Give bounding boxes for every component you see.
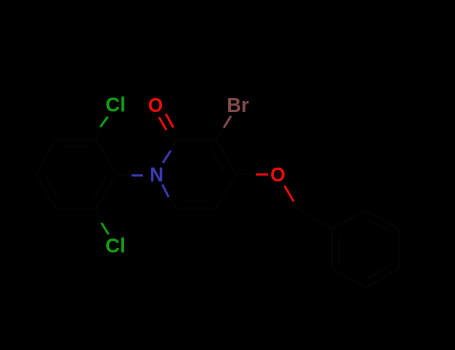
- bond O-CH2 carbon half: [294, 202, 299, 210]
- wire ring edge V5-V6: [332, 268, 366, 287]
- svg-text:O: O: [270, 164, 285, 186]
- wire aromatic inner V6-V1: [338, 235, 340, 262]
- bond C4-O ether O half: [256, 173, 268, 175]
- svg-text:Cl: Cl: [106, 95, 126, 117]
- wire ring edge V1-V2: [332, 210, 366, 229]
- pyridinone ring: [169, 139, 236, 208]
- bond ipso-N, N half: [132, 174, 144, 176]
- wire ring edge para-meta2: [36, 174, 56, 209]
- bond C3-Br Br half: [224, 116, 231, 128]
- wire ring edge orthoBottom-ipso: [96, 174, 116, 209]
- wire double bond inner C3=C4: [210, 147, 224, 171]
- wire ring edge meta2-orthoBottom: [56, 208, 96, 210]
- carbonyl C2=O line2 carbon half: [173, 128, 178, 137]
- svg-text:Br: Br: [227, 95, 249, 117]
- wire ring edge V4-V5: [366, 268, 400, 287]
- carbonyl C2=O line1 O half: [159, 117, 167, 130]
- bond C3-Br carbon half: [216, 128, 224, 140]
- bond C(aryl)-Cl top, carbon half: [96, 127, 100, 139]
- wire aromatic inner V2-V3: [367, 219, 391, 233]
- bond O-CH2 O half: [285, 186, 294, 202]
- wire N-C6 carbon half: [169, 197, 176, 209]
- bond C(aryl)-Cl bottom, carbon half: [96, 209, 101, 223]
- wire ring edge V2-V3: [366, 210, 400, 229]
- wire aromatic inner V4-V5: [367, 265, 391, 279]
- svg-text:Cl: Cl: [105, 236, 125, 258]
- bond ipso-N, carbon half: [116, 174, 132, 175]
- wire double bond inner C5=C6: [182, 201, 210, 203]
- wire aromatic inner line lower-left: [45, 175, 59, 199]
- bond C(aryl)-Cl top, Cl half: [100, 117, 108, 127]
- wire ring edge ipso-orthoTop: [96, 139, 116, 174]
- wire aromatic inner line lower-right: [93, 175, 107, 199]
- bond CH2-ipso benzyl: [298, 209, 332, 229]
- bond N-C2, N half: [163, 151, 171, 163]
- bond C4-O ether carbon half: [236, 173, 256, 176]
- wire aromatic inner line top: [62, 145, 90, 147]
- carbonyl C2=O line1 carbon half: [167, 130, 173, 139]
- wire ring edge V6-V1: [331, 229, 333, 268]
- svg-text:O: O: [148, 94, 163, 117]
- wire ring edge C4-C5: [216, 174, 236, 209]
- wire ring edge C2-C3: [176, 138, 216, 140]
- bond N-C6, N half: [162, 185, 168, 198]
- wire ring edge meta-para: [36, 139, 56, 174]
- dichlorophenyl ring (left benzene): [36, 139, 116, 208]
- bond C(aryl)-Cl bottom, Cl half: [101, 223, 108, 234]
- wire ring edge C5-C6: [176, 208, 216, 210]
- wire ring edge C3-C4: [216, 139, 236, 174]
- svg-text:N: N: [150, 164, 164, 187]
- carbonyl C2=O line2 O half: [166, 114, 174, 128]
- benzyl phenyl ring: [332, 210, 399, 288]
- wire ring edge orthoTop-meta: [56, 138, 96, 140]
- wire N-C2 carbon half: [171, 139, 176, 150]
- wire ring edge V3-V4: [398, 229, 400, 268]
